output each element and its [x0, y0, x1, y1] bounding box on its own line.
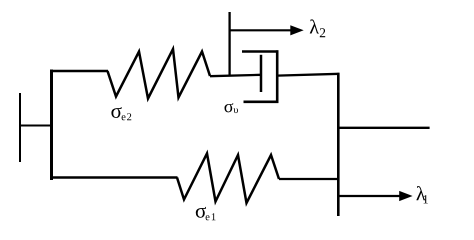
spring Se1 [177, 154, 279, 204]
label lambda1 [416, 186, 427, 203]
wire bottom spring to right bar [279, 178, 339, 180]
wire dashpot to right bar [277, 74, 339, 76]
label sigma_v [224, 103, 237, 113]
arrow lambda2 [230, 25, 304, 35]
wire piston rod [210, 75, 261, 76]
label lambda2 [310, 19, 325, 37]
spring Se2 [108, 49, 211, 99]
wire bottom-left [50, 176, 178, 179]
left bar node [50, 70, 53, 181]
label sigma_e1 [196, 207, 216, 220]
dashpot piston plate [260, 55, 263, 92]
wire top-left [50, 70, 108, 73]
right bar node [337, 73, 340, 216]
label sigma_e2 [111, 107, 131, 120]
ground wall anchor [19, 93, 51, 162]
wire rod up to arrow [228, 12, 230, 76]
output rod [338, 127, 430, 129]
arrow lambda1 [338, 191, 413, 201]
dashpot cylinder [242, 50, 278, 103]
